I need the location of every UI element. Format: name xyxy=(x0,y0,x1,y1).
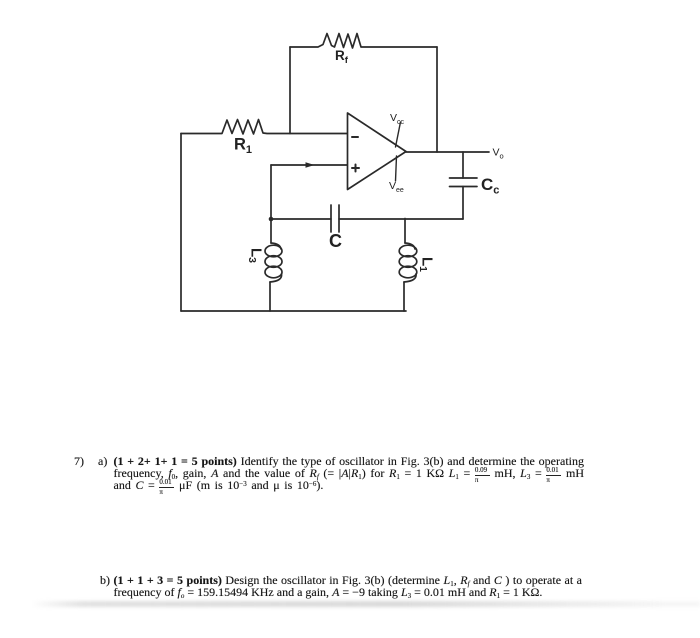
wire xyxy=(181,310,406,312)
svg-text:Rf: Rf xyxy=(335,48,349,66)
inductor L1 xyxy=(399,243,417,282)
svg-text:L1: L1 xyxy=(417,257,436,272)
power pin Vcc xyxy=(390,112,405,147)
wire xyxy=(270,219,272,243)
svg-text:Vee: Vee xyxy=(389,180,404,194)
wire xyxy=(289,47,291,134)
resistor Rf xyxy=(290,34,437,49)
resistor R1 xyxy=(181,120,348,135)
wire xyxy=(404,219,406,244)
problem text part a xyxy=(74,455,90,467)
capacitor C xyxy=(331,205,339,232)
wire xyxy=(436,47,438,152)
junction arrow xyxy=(306,162,315,168)
svg-text:L3: L3 xyxy=(246,248,265,263)
wire xyxy=(270,165,272,219)
svg-text:Cc: Cc xyxy=(481,175,499,197)
op-amp U1 xyxy=(348,113,407,190)
wire xyxy=(403,282,405,311)
junction node B xyxy=(269,217,274,222)
wire xyxy=(462,187,464,220)
svg-text:C: C xyxy=(329,231,342,251)
wire xyxy=(406,151,489,153)
problem text part b xyxy=(100,574,116,586)
wire xyxy=(269,282,271,311)
wire xyxy=(462,152,464,178)
capacitor Cc xyxy=(450,178,478,187)
wire xyxy=(271,218,331,220)
wire xyxy=(339,218,463,220)
svg-text:Vo: Vo xyxy=(493,147,504,161)
wire xyxy=(271,164,348,166)
power pin Vee xyxy=(389,156,404,194)
inductor L3 xyxy=(265,243,282,282)
svg-text:R1: R1 xyxy=(234,136,252,157)
svg-text:Vcc: Vcc xyxy=(390,112,405,126)
scan smear artifact xyxy=(30,601,700,607)
wire xyxy=(180,134,182,312)
